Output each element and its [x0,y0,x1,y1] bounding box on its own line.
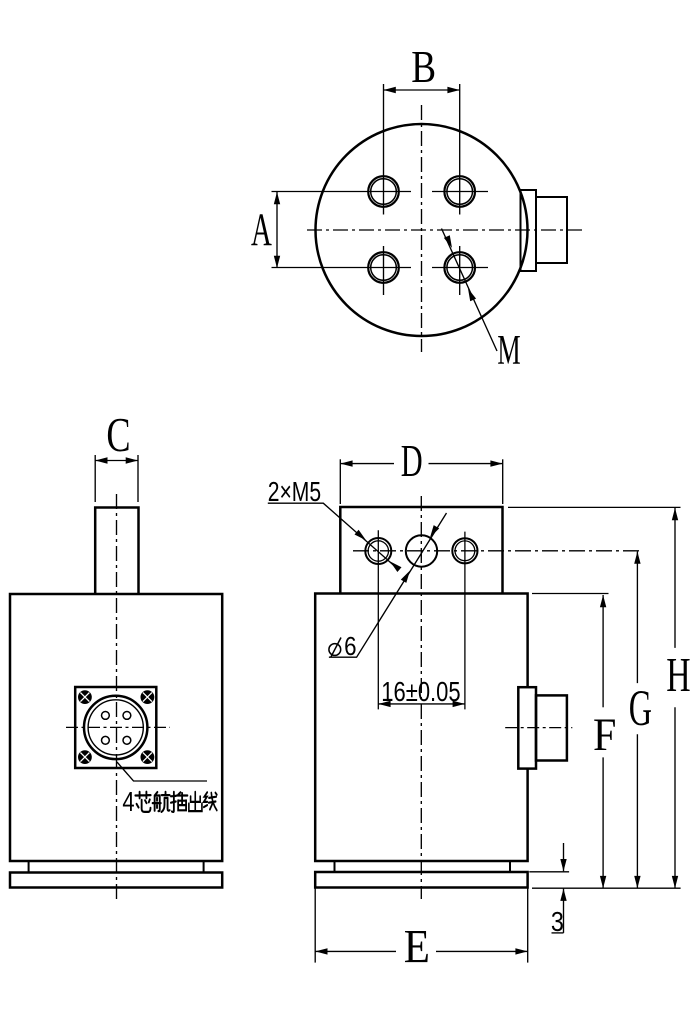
top view vertical centerline [421,105,423,352]
dimension D extension left [339,459,341,504]
CJK text 4-core aviation plug outlet wire [135,792,216,812]
connector square flange [75,687,156,768]
dimension C extension left [94,455,96,502]
dimension H line lower [674,707,676,888]
front view shaft [95,508,138,595]
glyph xin (core) [135,792,150,812]
dimension D line with arrows [340,463,394,465]
dimension G line lower [636,734,638,888]
dimension 3 lower arrow and tail [563,889,565,933]
dimension C line with arrows [95,460,138,462]
glyph hang (aviation) [153,792,170,812]
bolt hole bottom-right outer [444,252,475,283]
svg-text:3: 3 [551,907,564,937]
leader phi6 arrowhead lower [401,571,410,583]
head hole left inner [368,541,388,561]
side connector narrow rect [518,687,536,768]
front view base strip [29,861,204,873]
head hole right outer [452,538,477,563]
label phi6 glyph [329,638,341,658]
dimension E extension right [527,888,529,962]
head hole center [406,535,437,566]
bolt hole top-right inner [447,179,473,205]
top view horizontal centerline [307,229,584,231]
dimension C extension right [137,455,139,502]
head hole left outer [365,538,391,564]
connector screw top-left [78,690,92,704]
top view body outer circle [316,124,528,336]
connector outer circle [84,696,147,759]
dimension H line upper [674,508,676,648]
bolt hole top-right outer [444,176,475,207]
front view body [10,594,222,861]
svg-text:A: A [251,204,272,256]
dimension E extension left [314,888,316,962]
connector label leader line [117,762,207,781]
svg-text:D: D [401,437,423,486]
side view base plate [315,872,527,888]
label phi6 underline and leader [329,513,447,657]
connector pin 2 [123,712,131,720]
glyph chu (out) [189,792,202,811]
extension line at plate top for 3 dim [529,871,569,873]
dimension D extension right [502,459,504,504]
side view head block [340,507,502,594]
leader 2xM5 arrowhead upper [355,530,367,541]
H extension line at head top [508,506,681,508]
leader M arrowhead at hole top [444,235,452,248]
bottom-left hole vertical centerline [383,246,385,295]
top view connector tab outer rect [536,197,567,263]
front view vertical centerline [116,494,118,902]
connector screw top-right [141,690,155,704]
hole centerline row2 left (A extension) [272,267,412,269]
side view vertical centerline [420,496,422,899]
B extension line right through holes [459,84,461,215]
leader M arrowhead at hole bottom [468,289,476,302]
hole centerline row2 right [432,267,488,269]
connector screw bottom-right [141,750,155,764]
svg-text:F: F [593,708,616,761]
svg-text:H: H [666,649,690,702]
top view connector tab inner rect [521,190,537,271]
dimension F line upper [602,595,604,707]
connector pin 4 [123,736,131,744]
bolt hole top-left outer [368,176,399,207]
bolt hole bottom-right inner [447,255,473,281]
hole centerline row1 right [432,191,488,193]
hole centerline row1 left (A extension) [272,191,412,193]
front view base plate [10,873,222,888]
bolt hole bottom-left outer [368,252,399,283]
side view body [315,594,527,862]
bolt hole top-left inner [371,179,397,205]
head holes centerline (G extension) [353,550,643,552]
label 2xM5 underline and leader [268,503,399,570]
dimension A line with arrows [276,192,278,268]
bolt hole bottom-left inner [371,255,397,281]
svg-text:6: 6 [344,632,356,661]
svg-text:16±0.05: 16±0.05 [381,677,460,708]
dimension 3 upper arrow [563,843,565,871]
B extension line left through holes [383,84,385,215]
F extension line at body top [532,593,609,595]
left hole vertical extension to 16 dim [377,530,379,709]
svg-text:C: C [106,409,130,462]
dimension F line lower [602,757,604,888]
leader phi6 arrowhead upper [430,525,439,537]
bottom-right hole vertical centerline [459,246,461,295]
svg-text:2×M5: 2×M5 [268,477,321,507]
side view base strip [335,861,511,872]
dimension B line with arrows [384,89,460,91]
dimension 3 underline [552,932,564,934]
svg-text:M: M [497,327,520,374]
connector pin 1 [102,712,110,720]
bottom extension line at plate bottom [532,887,681,889]
dimension G line upper [636,552,638,684]
svg-text:B: B [411,42,436,92]
side connector wide rect [536,695,567,760]
glyph xian (wire) [204,792,217,810]
connector screw bottom-left [78,750,92,764]
svg-text:4: 4 [122,787,134,818]
leader 2xM5 arrowhead lower [390,561,402,572]
dimension E line with arrows [315,950,396,952]
glyph cha (plug) [171,792,188,812]
dimension 16 line with arrows [378,703,465,705]
connector pin 3 [102,736,110,744]
connector inner circle [88,700,143,755]
connector horizontal centerline [66,726,170,728]
head hole right inner [455,541,475,561]
side connector centerline [505,727,572,729]
leader line M [442,229,498,352]
svg-text:E: E [404,919,430,973]
svg-text:G: G [629,681,652,737]
right hole vertical extension to 16 dim [464,532,466,710]
